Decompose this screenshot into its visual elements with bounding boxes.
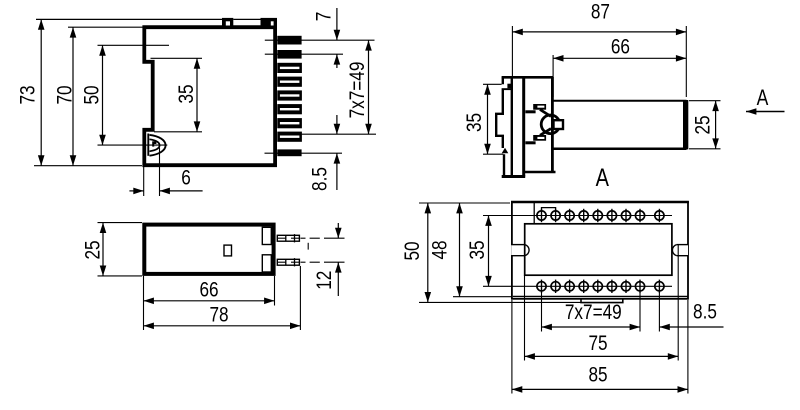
divider line left of screw 1: [533, 203, 535, 224]
pin 7 (hollow): [277, 118, 302, 128]
dimension 6: [143, 167, 145, 196]
bottom screw row centerline: [483, 285, 672, 287]
pin A centerline dashes: [301, 237, 306, 239]
inner rect 1: [262, 227, 271, 244]
clip mechanism: upper left stub: [525, 110, 535, 113]
svg-text:48: 48: [428, 240, 452, 259]
svg-text:50: 50: [80, 85, 104, 104]
din rail profile: [496, 77, 504, 175]
svg-text:78: 78: [209, 303, 228, 327]
mounting block bottom edge: [525, 171, 556, 174]
relay body outline: [144, 27, 275, 165]
dimension 73: [34, 165, 142, 167]
dimension 7x7=49: [368, 40, 370, 134]
socket inner rectangle: [525, 224, 672, 275]
pin 8 (hollow): [277, 132, 302, 142]
dimension 35 (socket): [488, 216, 490, 287]
left keyhole notch: [511, 245, 529, 256]
svg-text:66: 66: [199, 278, 218, 302]
pin B centerline dashes: [301, 261, 306, 263]
retaining clip (side): [148, 134, 165, 156]
rail top hook: [502, 88, 513, 90]
pin 3 (hollow): [277, 63, 302, 73]
relay body (top view, long rectangle): [554, 100, 687, 102]
rail bottom edge: [502, 175, 526, 178]
dimension 66 (top-right): [552, 55, 554, 97]
pin 9 (solid): [277, 149, 301, 156]
center small square: [224, 245, 232, 256]
top screw row centerline: [483, 215, 672, 217]
svg-text:35: 35: [462, 113, 486, 132]
svg-text:73: 73: [16, 85, 40, 104]
svg-text:50: 50: [400, 241, 424, 260]
mounting block left edge: [522, 77, 525, 177]
screw column extension lines: [541, 293, 543, 332]
svg-text:70: 70: [53, 85, 77, 104]
pin 1 (solid): [277, 36, 301, 45]
svg-text:A: A: [757, 86, 769, 111]
dimension 8.5: [336, 115, 338, 134]
clip mechanism: lower bar: [533, 135, 546, 141]
clip mechanism: upper bar: [533, 104, 546, 110]
pin 9 extension line: [265, 152, 343, 154]
dimension 12: [324, 237, 345, 239]
screws bottom row: [537, 280, 664, 293]
relay body front face (thick): [683, 100, 688, 149]
top lip line: [36, 18, 222, 20]
dimension 25 (bottom view): [98, 222, 143, 224]
pin 1 extension line: [265, 39, 375, 41]
pin 6 (hollow): [277, 104, 302, 114]
svg-text:85: 85: [588, 363, 607, 387]
dimension 87: [511, 26, 513, 77]
dimension 50 (socket): [419, 202, 510, 204]
dimension 7 (pin pitch): [336, 8, 338, 40]
clip centerline: [98, 144, 168, 146]
mounting block right edge: [551, 77, 554, 172]
pin 8 extension line: [302, 133, 377, 135]
dimension 8.5 (socket): [659, 326, 723, 328]
svg-text:35: 35: [174, 84, 198, 103]
dimension 70: [68, 26, 143, 28]
svg-text:87: 87: [591, 0, 610, 24]
screws top row: [537, 209, 664, 222]
pin 2 extension line: [265, 53, 343, 55]
top tab 2: [261, 18, 278, 29]
dimension 66 (bottom view): [143, 276, 145, 330]
bottom tab: [581, 299, 623, 303]
dimension 35 (side view): [151, 57, 203, 59]
inner rect 2: [262, 255, 271, 272]
svg-text:66: 66: [611, 35, 630, 59]
dimension 48: [453, 296, 511, 298]
dimension 7x7=49 (socket): [542, 326, 641, 328]
clip mechanism: right box: [554, 120, 564, 129]
pin B (bottom view): [277, 258, 299, 266]
body outline (bottom view): [144, 225, 273, 274]
rail bottom hook (triangle): [502, 148, 509, 154]
vertical dash between pin axes: [307, 243, 309, 250]
dimension 75: [524, 276, 526, 361]
right keyhole notch: [672, 245, 688, 256]
socket inner bottom line: [513, 295, 688, 297]
svg-text:35: 35: [465, 240, 489, 259]
socket outer top edge (thicker): [511, 201, 689, 204]
dimension 78: [299, 266, 301, 330]
top tab 1: [222, 18, 233, 29]
dimension 25 (top-right): [689, 100, 721, 102]
svg-text:25: 25: [691, 115, 715, 134]
dimension 85: [511, 300, 513, 394]
svg-text:7x7=49: 7x7=49: [345, 62, 369, 119]
svg-text:7x7=49: 7x7=49: [565, 300, 622, 324]
din rail top plate line: [502, 76, 554, 79]
svg-text:6: 6: [181, 166, 191, 190]
rail right edge: [511, 76, 513, 176]
pin 4 (hollow): [277, 77, 302, 87]
dimension 35 (top-right): [483, 83, 502, 85]
pin 2 (solid): [277, 50, 301, 59]
clip mechanism: upper diagonal: [540, 110, 551, 117]
pin 5 (hollow): [277, 90, 302, 100]
clip mechanism: lower left stub: [525, 141, 535, 144]
svg-text:75: 75: [588, 331, 607, 355]
pin A (bottom view): [277, 234, 299, 242]
svg-text:7: 7: [312, 12, 336, 22]
svg-text:8.5: 8.5: [308, 167, 332, 191]
bracket over screws 1-2: [542, 208, 556, 211]
svg-text:A: A: [596, 164, 610, 192]
dimension 50: [98, 44, 170, 46]
clip mechanism: circle: [541, 115, 560, 134]
section arrow A: [746, 111, 785, 113]
socket outer rectangle: [512, 202, 688, 299]
svg-text:25: 25: [81, 240, 105, 259]
svg-text:12: 12: [312, 271, 336, 290]
clip mechanism: lower diagonal: [540, 129, 551, 136]
svg-text:8.5: 8.5: [693, 300, 717, 324]
